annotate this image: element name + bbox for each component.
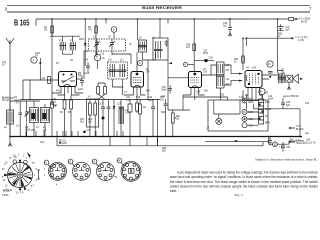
capacitor C23 <box>59 142 61 144</box>
wire V2 anode rise <box>136 52 138 72</box>
svg-text:13065: 13065 <box>2 195 9 197</box>
svg-text:B.50: B.50 <box>265 102 270 104</box>
svg-text:65V: 65V <box>204 91 209 93</box>
capacitor C26 <box>168 85 172 94</box>
capacitor C1 <box>19 108 23 123</box>
resistor R4 <box>63 100 66 109</box>
wire ladder links <box>240 100 259 125</box>
IFT2 box <box>108 62 128 79</box>
node dot x230 <box>229 18 231 20</box>
wire V1 anode link <box>77 51 89 79</box>
wire R11 R12 drops <box>90 100 95 137</box>
ladder contacts <box>259 104 264 120</box>
wire x246 drop <box>246 38 248 46</box>
svg-text:L.T.+ (1·4V): L.T.+ (1·4V) <box>296 37 308 39</box>
svg-text:0µ01: 0µ01 <box>35 53 41 55</box>
arrow connector det <box>169 62 173 64</box>
svg-text:C33: C33 <box>264 93 269 95</box>
speaker LS <box>286 74 302 83</box>
svg-text:L2 2·6 0µM: L2 2·6 0µM <box>2 98 14 100</box>
wafer switch S1 rear view <box>4 160 32 191</box>
ground bus chassis line <box>10 136 302 138</box>
connector circle P3 <box>242 117 247 122</box>
output transformer T1 <box>278 73 286 83</box>
tube base V4 callout <box>117 158 122 163</box>
V1 pin components row <box>52 93 83 95</box>
V4 pin drops <box>243 90 248 100</box>
wire HT top bus <box>36 18 250 20</box>
wire X cross <box>98 83 105 100</box>
wire psu top <box>183 88 228 100</box>
svg-text:C17: C17 <box>99 104 104 106</box>
wire V-line x194 <box>193 19 195 72</box>
svg-text:C28: C28 <box>209 58 214 60</box>
wire right drops <box>243 95 262 100</box>
pilot lamp circle <box>216 118 222 124</box>
svg-text:0µ04: 0µ04 <box>268 99 274 101</box>
tube base V3 callout <box>92 159 97 164</box>
wire HT rail right <box>254 104 301 137</box>
junction dots top bus <box>51 18 278 20</box>
svg-text:BRN: BRN <box>265 123 270 125</box>
variable capacitor C5 <box>109 39 115 50</box>
capacitor C19 <box>119 100 123 137</box>
svg-text:A pre-aligned/unit meter was u: A pre-aligned/unit meter was used for ta… <box>177 170 318 174</box>
svg-text:88V: 88V <box>146 91 151 93</box>
arrow into V4 filament <box>239 80 243 82</box>
resistor R1 <box>51 26 54 33</box>
gang box C2 C5 <box>89 39 126 51</box>
trimmer T1a <box>25 108 30 122</box>
choke L12 <box>119 107 124 125</box>
capacitor C7 <box>80 76 84 86</box>
capacitor C34 <box>281 142 285 152</box>
resistor R13 <box>136 103 139 111</box>
tube V4 <box>245 71 262 88</box>
wire grid link V1 <box>23 69 59 100</box>
svg-text:L.T.+: L.T.+ <box>296 140 302 142</box>
wire bus ticks <box>26 131 158 146</box>
svg-text:C24: C24 <box>148 97 153 99</box>
wire MR1 stem <box>84 19 86 66</box>
header top rule <box>7 5 310 7</box>
IFT3 transformer <box>217 62 225 88</box>
coil L2 frame <box>30 108 39 123</box>
coil L3 dark slug <box>43 113 47 119</box>
wire LT line right <box>245 37 293 39</box>
resistor R25 body <box>242 56 245 63</box>
wire IFT2 drops <box>112 79 123 95</box>
capacitor C14 <box>86 62 90 72</box>
capacitor C36 <box>228 28 232 34</box>
test point circle B <box>111 27 117 33</box>
tube base V1 callout <box>44 160 49 165</box>
connector circle P1 <box>242 98 247 103</box>
coil L4 osc <box>70 42 77 50</box>
svg-text:C21: C21 <box>126 97 131 99</box>
capacitor C28 black <box>194 60 214 62</box>
wire HT- arrow <box>289 127 295 129</box>
wire HT arrow <box>294 18 298 20</box>
wire x52 continue <box>51 80 53 137</box>
tube base V3 extra pin <box>115 176 118 178</box>
svg-text:B165 RECEIVER: B165 RECEIVER <box>142 6 182 10</box>
test point circle D <box>137 60 142 65</box>
wire OPT to HT <box>278 19 284 74</box>
test point circle H <box>259 88 265 94</box>
wire V-line x160 <box>159 19 161 38</box>
tube V1 <box>59 72 77 87</box>
svg-text:C22: C22 <box>161 96 166 98</box>
wire antenna down lead <box>9 55 11 137</box>
svg-text:1·5H: 1·5H <box>125 113 130 115</box>
svg-text:3S4: 3S4 <box>252 68 257 70</box>
volume control R21 <box>171 113 174 123</box>
svg-text:1M: 1M <box>44 30 47 32</box>
wire AVC line <box>20 99 160 101</box>
switch contact S1a <box>52 100 56 107</box>
tube V1 pins <box>61 87 75 96</box>
coil L1 aerial <box>7 110 14 124</box>
resistor R11 <box>89 103 92 115</box>
diode D2 <box>113 106 116 109</box>
svg-text:BLACK: BLACK <box>296 128 304 131</box>
junction dots ground bus <box>9 136 301 138</box>
circled letter b <box>24 160 28 164</box>
resistor R5 <box>70 100 73 109</box>
svg-text:C20: C20 <box>87 130 92 132</box>
capacitor C41 <box>268 72 273 74</box>
capacitor C18 <box>107 100 111 137</box>
tube base V3 <box>97 163 115 181</box>
connector circle P4 <box>242 123 247 128</box>
wire R4 R5 drops <box>65 95 72 137</box>
wire V4 plate link <box>262 75 280 79</box>
variable capacitor C2 <box>94 39 100 50</box>
wafer pointer arrow <box>27 152 31 157</box>
svg-text:B.121: B.121 <box>306 142 313 144</box>
wire meter out <box>277 141 304 144</box>
wire V-line x230 <box>229 19 231 27</box>
svg-text:Fig. 5: Fig. 5 <box>235 193 243 197</box>
svg-text:1S5: 1S5 <box>203 72 208 74</box>
tube base V2 <box>73 162 91 180</box>
wire C stem <box>96 51 98 69</box>
svg-text:C8 0µ1: C8 0µ1 <box>2 100 10 102</box>
wire IFT3 couplings <box>202 65 237 85</box>
wire x243 drop <box>242 38 244 70</box>
wire osc coil rail <box>50 19 80 54</box>
svg-text:0µ01: 0µ01 <box>78 89 84 91</box>
wire V-line x96 <box>95 19 97 57</box>
wire lamp stem <box>214 100 240 118</box>
wire V-line x137.5 <box>137 19 139 40</box>
svg-text:Subject to alteration without: Subject to alteration without notice. Is… <box>255 158 317 162</box>
wire top ticks <box>36 19 168 26</box>
wire V-line x52 <box>51 19 53 71</box>
svg-text:wafers viewed from the rear wi: wafers viewed from the rear with the cha… <box>170 185 318 189</box>
capacitor C21 <box>128 100 132 137</box>
svg-text:R22: R22 <box>220 95 225 97</box>
svg-text:45V: 45V <box>56 91 61 93</box>
oscillator coil box L7 <box>87 99 99 127</box>
wire meter branch <box>269 137 273 144</box>
wire gang stubs <box>97 51 131 64</box>
tube V2 <box>131 72 144 88</box>
ground symbol chassis left <box>8 137 12 147</box>
svg-text:1µF: 1µF <box>305 133 310 135</box>
svg-text:C40: C40 <box>286 102 291 104</box>
header bottom rule <box>7 11 310 13</box>
resistor R12 <box>94 103 97 115</box>
capacitor C37 <box>278 24 284 31</box>
dimension mark wafer <box>37 170 40 179</box>
tube base V1 <box>49 162 67 180</box>
coil L3 osc <box>60 42 67 50</box>
test point circle E <box>183 62 187 66</box>
svg-text:C12: C12 <box>100 54 105 56</box>
wire bottom right link <box>268 137 295 146</box>
V3 pin drops <box>183 95 205 100</box>
tube V3 pins <box>191 88 199 99</box>
coil L3 frame <box>41 108 50 123</box>
wire x157 <box>157 100 159 146</box>
resistor R24 <box>289 18 294 21</box>
svg-text:C29: C29 <box>196 92 201 94</box>
antenna A1 <box>6 38 14 55</box>
svg-text:side.: side. <box>170 189 177 193</box>
svg-text:C14: C14 <box>84 60 89 62</box>
svg-text:88·5V: 88·5V <box>301 22 308 24</box>
resistor R3 <box>48 77 51 84</box>
coil L2 dark slug <box>32 113 36 119</box>
wire L1 top link <box>10 101 45 110</box>
svg-text:MR1: MR1 <box>79 39 85 41</box>
arrow into V4 grid <box>239 73 243 75</box>
svg-text:R20: R20 <box>161 112 166 114</box>
resistor R14 crossing <box>97 87 100 95</box>
test point circle C <box>94 54 100 60</box>
diode detector cluster <box>269 76 271 78</box>
wire tp B stem <box>113 32 115 39</box>
svg-text:H.T.+ (90V): H.T.+ (90V) <box>299 19 311 21</box>
diode D1 <box>84 43 87 46</box>
svg-text:YELLOW: YELLOW <box>296 143 306 145</box>
wire coil bottoms to bus <box>10 123 45 137</box>
svg-text:C42: C42 <box>305 103 310 105</box>
wire HT feed right <box>250 18 289 20</box>
capacitor C17 <box>101 100 105 137</box>
electrolytic C20 <box>83 131 86 134</box>
tube base V4 <box>121 161 141 181</box>
svg-text:50pF: 50pF <box>162 90 168 92</box>
resistor R19 <box>193 44 196 51</box>
circled letter a <box>13 160 17 164</box>
capacitor C22 <box>164 99 168 137</box>
svg-text:1·33V: 1·33V <box>298 40 305 42</box>
V2 pin drops <box>124 95 146 100</box>
tube base V2 callout <box>68 159 73 164</box>
ladder rungs <box>259 103 264 121</box>
wafer rim numbers <box>2 155 38 195</box>
IF transformer IFT1b <box>153 38 168 60</box>
svg-text:0µ05: 0µ05 <box>148 100 154 102</box>
switch ladder box <box>259 99 264 124</box>
ground symbol speaker <box>287 82 290 90</box>
svg-text:8µF: 8µF <box>286 105 291 107</box>
tube V4 pins <box>248 88 263 101</box>
connector circle P2 <box>242 110 247 115</box>
svg-text:C44: C44 <box>306 140 311 142</box>
electrolytic C15 <box>102 117 105 120</box>
resistor R16 <box>139 104 142 114</box>
capacitor C40 <box>281 98 285 109</box>
svg-text:C34: C34 <box>286 147 291 149</box>
test point circle A <box>31 57 37 63</box>
svg-text:9V: 9V <box>313 142 316 144</box>
resistor R6 <box>95 26 98 33</box>
svg-text:0·01: 0·01 <box>126 100 131 102</box>
wire V3 grid return <box>168 77 189 79</box>
tube V2 pins <box>134 87 141 97</box>
wire E stem <box>188 64 195 66</box>
svg-text:BLUE: BLUE <box>265 109 271 111</box>
capacitor C24 <box>151 100 155 137</box>
wire lower bus <box>57 145 263 147</box>
svg-text:1M: 1M <box>143 107 146 109</box>
svg-text:25pF: 25pF <box>203 53 209 55</box>
PSU box outline <box>208 100 268 131</box>
svg-text:S1b: S1b <box>40 142 45 144</box>
wire detector row <box>168 95 190 110</box>
paragraph note <box>170 170 318 193</box>
svg-text:0µ05: 0µ05 <box>62 143 68 145</box>
svg-text:1M: 1M <box>176 119 179 121</box>
svg-text:C39: C39 <box>249 126 254 128</box>
svg-text:3Ω: 3Ω <box>300 79 303 81</box>
resistor R2 <box>51 102 54 108</box>
svg-text:approx 350mW: approx 350mW <box>283 95 299 98</box>
svg-text:8µF: 8µF <box>286 30 291 32</box>
test point circle G <box>267 61 273 67</box>
ground symbol C36 <box>228 33 231 37</box>
svg-text:wave band and operating under: wave band and operating under “no signal… <box>170 175 318 179</box>
svg-text:B 165: B 165 <box>14 18 30 27</box>
tube V3 <box>189 72 202 88</box>
svg-text:0µ05: 0µ05 <box>84 73 90 75</box>
svg-text:L.T.: L.T. <box>206 128 210 130</box>
meter circle M <box>273 142 278 147</box>
IF transformer IFT1 <box>139 40 147 52</box>
svg-text:the value is less than one ohm: the value is less than one ohm. The wave… <box>170 180 318 184</box>
svg-text:RED: RED <box>249 102 254 104</box>
capacitor C4 padder <box>39 63 42 66</box>
wire IFT1 drops <box>142 52 155 100</box>
svg-text:H.T.−: H.T.− <box>296 126 302 128</box>
wire V-line x168 <box>167 60 169 110</box>
wire LT return <box>205 141 269 146</box>
svg-text:C19: C19 <box>117 104 122 106</box>
resistor R15 crossing <box>104 87 107 95</box>
